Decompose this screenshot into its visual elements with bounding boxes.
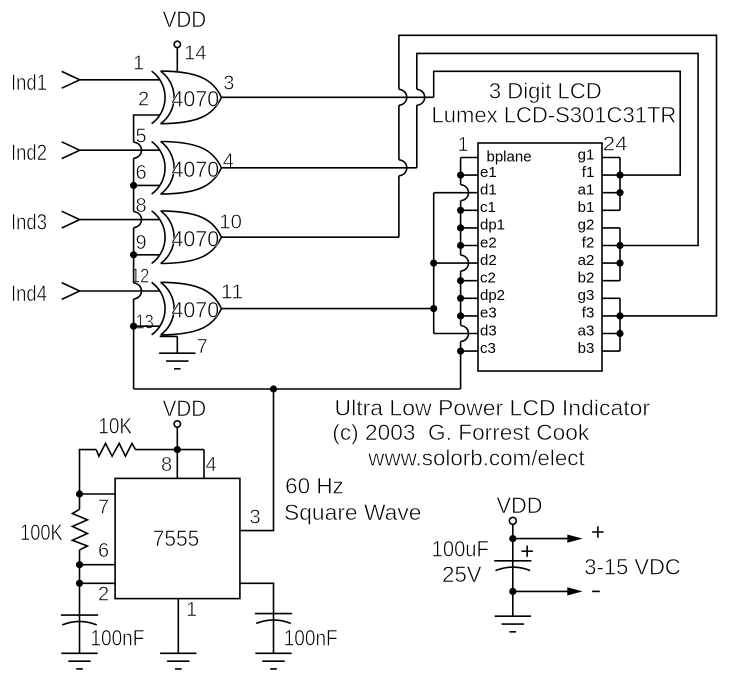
ground (C1) [61,653,97,669]
svg-text:dp1: dp1 [480,217,505,234]
wire stub dp2 [461,297,478,299]
svg-text:e1: e1 [480,164,497,181]
svg-text:e3: e3 [480,305,497,322]
junction f1 [616,172,623,179]
ground (power input) [495,616,531,632]
wire middle loop output4 to f2 [417,53,698,245]
svg-text:bplane: bplane [487,148,532,165]
XOR gate U1D 4070 [152,282,222,335]
svg-text:g3: g3 [578,287,595,304]
wire gate input bus (pins 2,6,9,13) [134,115,160,389]
svg-text:Ind3: Ind3 [11,210,47,235]
wire d bus [433,193,435,334]
wire pin 14 [176,48,178,72]
wire hop bus over Ind2 [134,142,142,158]
wire pin 1 to ground [177,599,179,654]
wire stub b3 [602,350,620,352]
svg-text:Ind4: Ind4 [11,281,47,306]
svg-text:f2: f2 [582,234,595,251]
svg-text:e2: e2 [480,234,497,251]
junction VDD pin 8 [174,446,181,453]
svg-text:1: 1 [458,134,469,156]
junction e3 [457,312,464,319]
svg-text:b1: b1 [578,199,595,216]
wire 7555 ground pin to C2 [240,583,274,613]
junction a3 [616,330,623,337]
input arrow Ind1 [62,71,80,88]
svg-text:100K: 100K [20,520,63,545]
svg-text:4: 4 [223,151,234,173]
wire pin 3 output [240,389,274,531]
svg-text:14: 14 [184,43,207,65]
wire segment bus g1-b1 [619,158,621,211]
wire stub f2 [602,245,620,247]
svg-text:Square Wave: Square Wave [284,500,422,525]
resistor R1 10K [96,443,135,456]
svg-text:2: 2 [138,89,149,111]
junction pin 13 [130,323,137,330]
wire stub f1 [602,174,620,176]
VDD terminal circle [174,41,180,47]
wire R1 right to pins 8 and 4 [136,449,205,451]
wire VDD to pin 8 [176,427,178,449]
junction pin 7 [76,490,83,497]
svg-text:100nF: 100nF [90,626,144,651]
junction a1 [616,189,623,196]
junction dp2 [457,295,464,302]
arrow plus terminal [567,535,582,543]
op... XOR gate U1A 4070 [152,71,222,124]
wire Ind4 to gate pin 12 [80,290,160,292]
wire Ind3 to gate pin 8 [80,219,160,221]
svg-text:VDD: VDD [163,7,207,32]
svg-text:3 Digit LCD: 3 Digit LCD [489,79,602,104]
wire plus tap [513,538,568,540]
capacitor C2 100nF [255,614,292,624]
wire minus tap [513,590,568,592]
junction pin 2 [76,580,83,587]
svg-text:g2: g2 [578,217,595,234]
wire backplane drive bus (bottom) [134,388,461,390]
svg-text:8: 8 [161,454,172,476]
svg-text:10: 10 [219,212,242,234]
junction 7555 output on drive bus [270,385,277,392]
wire stub c2 [461,280,478,282]
svg-text:8: 8 [136,195,147,217]
svg-text:10K: 10K [98,413,132,438]
wire stub dp1 [461,227,478,229]
svg-text:5: 5 [136,125,147,147]
junction e1 [457,172,464,179]
junction pin 6 [76,561,83,568]
svg-text:a2: a2 [578,252,595,269]
timer U3 7555 body [115,478,240,598]
svg-text:Lumex LCD-S301C31TR: Lumex LCD-S301C31TR [432,102,677,127]
wire segment bus g2-b2 [619,228,621,281]
wire pin 6 [80,564,116,566]
svg-text:3-15 VDC: 3-15 VDC [584,554,681,579]
svg-text:100nF: 100nF [284,626,338,651]
XOR gate U1C 4070 [152,211,222,264]
capacitor C1 100nF [61,615,98,625]
svg-text:2: 2 [98,584,109,606]
wire stub a2 [602,262,620,264]
wire pin2 to C1 [79,583,81,615]
wire output 10 [221,236,399,238]
junction d2 [430,260,437,267]
wire gate pin 7 to ground [160,336,178,353]
junction a2 [616,260,623,267]
wire stub pin 9 [134,254,160,256]
wire stub d2 [434,262,478,264]
svg-text:d2: d2 [480,252,497,269]
wire stub d1 [434,192,478,194]
wire stub bplane [461,157,478,159]
svg-text:f1: f1 [582,164,595,181]
wire hop middle loop over output3 [417,89,425,105]
wire stub d3 [434,333,478,335]
junction c1 [457,207,464,214]
svg-text:c3: c3 [480,340,496,357]
svg-text:25V: 25V [442,562,482,587]
svg-text:Ind1: Ind1 [11,70,47,95]
VDD terminal circle (power input) [509,517,516,524]
wire stub c3 [461,350,478,352]
wire pin 8 [176,450,178,479]
input arrow Ind4 [62,283,80,300]
wire hop outer loop over output3 [399,89,407,105]
wire VDD down through C3 to ground [512,524,514,616]
wire stub e2 [461,245,478,247]
wire output 11 to d bus [221,308,433,310]
svg-text:3: 3 [250,507,261,529]
svg-text:4070: 4070 [171,298,219,323]
svg-text:d1: d1 [480,182,497,199]
svg-text:c2: c2 [480,270,496,287]
wire hop bus over Ind4 [134,283,142,299]
wire stub g1 [602,157,620,159]
wire stub pin 13 [134,325,160,327]
svg-text:Ultra Low Power LCD Indicator: Ultra Low Power LCD Indicator [335,395,651,420]
svg-text:100uF: 100uF [432,536,489,561]
input arrow Ind3 [62,211,80,228]
wire C1 to ground [79,615,81,653]
svg-text:www.solorb.com/elect: www.solorb.com/elect [367,445,584,470]
wire R1 left to pin 7 [80,450,97,494]
wire stub a1 [602,192,620,194]
wire R2 to pin 6 [79,550,81,565]
svg-text:g1: g1 [578,147,595,164]
wire pin 2 [80,582,116,584]
wire hop bplane bus over d3 [461,326,469,342]
junction pin 9 [130,251,137,258]
svg-text:a3: a3 [578,322,595,339]
svg-text:13: 13 [136,312,154,334]
ground (C2) [255,653,291,669]
plus sign (C3 polarity) [521,546,533,557]
svg-text:11: 11 [221,282,244,304]
wire stub pin 6 [134,184,160,186]
svg-text:d3: d3 [480,322,497,339]
wire hop bplane bus over d2 [461,255,469,271]
svg-text:6: 6 [136,162,147,184]
svg-text:4070: 4070 [171,226,219,251]
svg-text:b3: b3 [578,340,595,357]
svg-text:7: 7 [197,336,208,358]
resistor R2 100K [72,509,87,550]
svg-text:1: 1 [133,53,144,75]
ground (7555 pin 1) [160,653,196,669]
wire Ind2 to gate pin 5 [80,149,160,151]
capacitor C3 100uF 25V [494,561,531,571]
LCD module U2 body [478,143,602,371]
wire stub a3 [602,333,620,335]
wire hop bplane bus over d1 [461,185,469,201]
svg-text:7: 7 [98,497,109,519]
junction f3 [616,312,623,319]
wire stub b1 [602,209,620,211]
wire pin 7 [80,493,116,495]
wire hop bus over Ind3 [134,212,142,228]
junction dp1 [457,224,464,231]
wire stub e3 [461,315,478,317]
junction c2 [457,277,464,284]
wire inner loop output3 to f1 [434,71,681,175]
wire C2 to ground [273,614,275,654]
svg-text:a1: a1 [578,182,595,199]
wire stub g3 [602,297,620,299]
wire stub b2 [602,280,620,282]
wire segment bus g3-b3 [619,298,621,351]
wire stub g2 [602,227,620,229]
minus sign (terminal) [592,590,600,592]
junction pin 6 [130,182,137,189]
wire stub f3 [602,315,620,317]
svg-text:(c) 2003 G. Forrest Cook: (c) 2003 G. Forrest Cook [332,420,590,445]
junction f2 [616,242,623,249]
wire output 4 [221,167,416,169]
wire pin 4 [203,450,205,479]
wire pin7 to R2 [79,494,81,509]
svg-text:7555: 7555 [153,526,200,551]
svg-text:Ind2: Ind2 [11,140,47,165]
ground (gates) [159,353,195,369]
junction plus tap [509,535,516,542]
svg-text:4: 4 [206,454,217,476]
svg-text:6: 6 [98,540,109,562]
svg-text:60 Hz: 60 Hz [285,474,344,499]
svg-text:4070: 4070 [171,157,219,182]
svg-text:4070: 4070 [171,87,219,112]
arrow minus terminal [567,587,582,595]
VDD terminal circle (7555) [174,421,180,427]
wire hop outer loop over output4 [399,160,407,176]
XOR gate U1B 4070 [152,142,222,195]
wire outer loop output10 to f3 [399,35,717,316]
junction e2 [457,242,464,249]
wire stub e1 [461,174,478,176]
svg-text:3: 3 [223,73,234,95]
svg-text:9: 9 [136,232,147,254]
svg-text:c1: c1 [480,199,496,216]
svg-text:24: 24 [603,134,628,156]
svg-text:1: 1 [186,599,197,621]
junction c3 [457,348,464,355]
wire Ind1 to gate pin 1 [80,79,160,81]
wire stub c1 [461,209,478,211]
input arrow Ind2 [62,142,80,159]
wire output 3 [221,96,433,98]
plus sign (terminal) [592,526,604,538]
junction output 11 on d bus [430,305,437,312]
wire pin6 to pin2 [79,565,81,584]
junction minus tap [509,588,516,595]
wire bplane bus [460,158,462,390]
svg-text:VDD: VDD [163,396,207,421]
svg-text:b2: b2 [578,270,595,287]
svg-text:VDD: VDD [497,493,543,518]
svg-text:dp2: dp2 [480,287,505,304]
svg-text:f3: f3 [582,305,595,322]
